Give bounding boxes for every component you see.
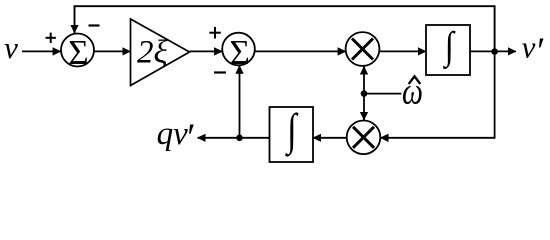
svg-text:∫: ∫ xyxy=(442,24,456,69)
integrator I1 box xyxy=(426,24,470,75)
wire summer S2 to multiplier M1 xyxy=(255,50,346,52)
wire integrator I2 to qv' junction xyxy=(240,137,270,139)
wire junction up to summer S2 bottom input xyxy=(239,66,241,138)
wire integrator I1 to output junction xyxy=(470,50,495,52)
summer U2 (sigma) xyxy=(222,33,255,72)
plus sign at S1 input xyxy=(46,33,56,43)
multiplier M1 (x) xyxy=(346,32,380,66)
plus sign at S2 input xyxy=(209,27,221,39)
gain block 2xi (triangle) xyxy=(131,19,190,86)
wire qv' output arrow xyxy=(198,137,240,139)
wire multiplier M1 to integrator I1 xyxy=(379,50,426,52)
wire right feedback from output junction down to multiplier M2 xyxy=(380,52,494,138)
wire summer S1 to gain block xyxy=(94,50,131,52)
junction node qv' xyxy=(236,135,243,142)
wire output arrow to v' xyxy=(495,50,516,52)
junction node at output xyxy=(491,48,498,55)
minus sign at S2 bottom input xyxy=(214,71,226,73)
svg-text:qv: qv xyxy=(157,116,189,152)
svg-text:v: v xyxy=(522,30,536,65)
wire omega-hat up arrow into M1 xyxy=(363,66,365,93)
junction node omega-hat xyxy=(361,90,368,97)
wire multiplier M2 to integrator I2 xyxy=(313,137,347,139)
wire input v to summer S1 xyxy=(22,50,61,52)
node qv' output label xyxy=(157,116,194,159)
svg-text:′: ′ xyxy=(535,30,544,72)
node omega-hat label xyxy=(402,71,423,112)
wire top feedback from output junction to summer S1 xyxy=(75,6,495,51)
minus sign at S1 top feedback input xyxy=(89,24,100,26)
wire omega-hat down arrow into M2 xyxy=(363,94,365,120)
svg-text:′: ′ xyxy=(185,116,194,159)
multiplier M2 (x) xyxy=(347,121,381,155)
node v' output label xyxy=(522,30,544,73)
summer U1 (sigma) xyxy=(61,33,94,72)
wire gain to summer S2 xyxy=(190,50,223,52)
svg-text:v: v xyxy=(4,30,18,65)
integrator I2 box xyxy=(270,104,314,162)
wire omega-hat label stub xyxy=(364,93,401,95)
svg-text:Σ: Σ xyxy=(68,33,88,72)
svg-text:2ξ: 2ξ xyxy=(137,34,169,70)
